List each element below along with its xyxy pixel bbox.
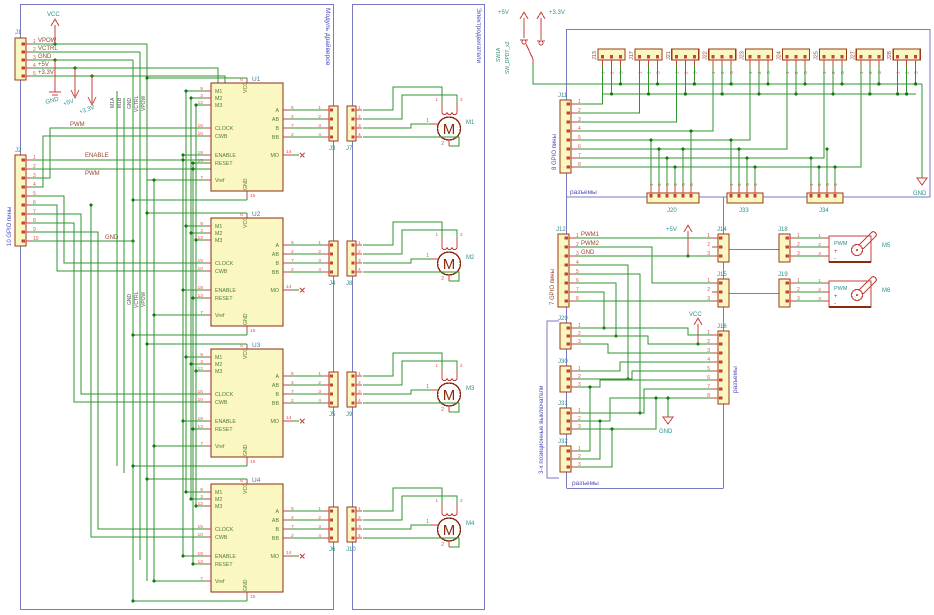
frame Модуль драйверов <box>21 5 334 610</box>
svg-text:2: 2 <box>460 498 463 503</box>
svg-text:RESET: RESET <box>215 427 233 433</box>
wire +5V J1.4 <box>32 67 75 69</box>
wire J27 pin1 <box>577 66 861 167</box>
svg-text:2: 2 <box>318 249 321 255</box>
power GND symbol (middle) <box>667 398 669 417</box>
connector J4 <box>329 241 338 276</box>
svg-text:3: 3 <box>825 183 831 186</box>
wire ENABLE stub U4 <box>183 555 205 557</box>
svg-text:2: 2 <box>757 71 763 74</box>
svg-text:A: A <box>275 374 279 380</box>
wire J9.2 to winding <box>363 361 457 385</box>
svg-text:-: - <box>834 256 836 262</box>
svg-text:CLOCK: CLOCK <box>215 392 234 398</box>
wire J31.1 to J16.7 <box>577 389 712 413</box>
svg-text:3: 3 <box>766 71 772 74</box>
wire J32.3 join <box>577 429 612 467</box>
svg-text:10: 10 <box>198 131 204 137</box>
svg-text:M1A: M1A <box>110 97 116 108</box>
svg-text:4: 4 <box>578 126 581 132</box>
svg-text:J9: J9 <box>346 412 353 418</box>
svg-text:J11: J11 <box>558 93 568 99</box>
wire J29.3 to J16.3 <box>577 344 712 353</box>
svg-text:GND: GND <box>913 191 927 197</box>
connector J12 <box>558 234 569 307</box>
svg-text:2: 2 <box>318 114 321 120</box>
svg-text:2: 2 <box>737 183 743 186</box>
svg-text:1: 1 <box>649 183 655 186</box>
frame Электродвигатели <box>353 5 485 610</box>
wire J28 pin3 to +rail <box>915 66 917 84</box>
wire RESET stub U2 <box>193 297 205 299</box>
wire VCTRL vertical bus <box>139 52 141 560</box>
svg-text:AB: AB <box>272 117 280 123</box>
wire Vref vertical bus <box>153 180 155 581</box>
svg-text:M3: M3 <box>215 369 222 375</box>
svg-text:U3: U3 <box>252 342 261 349</box>
svg-text:Vref: Vref <box>215 579 225 585</box>
power VCC symbol (middle) <box>697 324 699 344</box>
frame bottom разъемы (bottom right) <box>567 488 724 490</box>
svg-text:M2: M2 <box>215 96 222 102</box>
svg-text:M2: M2 <box>215 497 222 503</box>
svg-text:1: 1 <box>358 371 361 377</box>
wire J2.6 to row2 CWB <box>32 205 205 271</box>
wire GND J1.3 <box>32 59 133 61</box>
svg-text:VCTRL: VCTRL <box>38 46 58 52</box>
svg-text:2: 2 <box>358 249 361 255</box>
svg-text:3-х позиционные выключатели: 3-х позиционные выключатели <box>538 385 545 474</box>
svg-text:ENABLE: ENABLE <box>215 554 236 560</box>
switch SW1A <box>522 40 526 44</box>
wires bottom connector risers <box>650 140 652 188</box>
svg-text:2: 2 <box>358 515 361 521</box>
svg-text:J18: J18 <box>778 227 788 233</box>
svg-text:1: 1 <box>809 183 815 186</box>
svg-text:разъемы: разъемы <box>570 189 597 196</box>
wire J25 pin1 <box>577 66 824 158</box>
svg-text:2: 2 <box>646 71 652 74</box>
svg-text:M3: M3 <box>466 386 475 392</box>
wire row4 CWB branch <box>91 205 205 537</box>
svg-text:1: 1 <box>435 232 438 237</box>
svg-text:M1: M1 <box>215 89 222 95</box>
svg-text:1: 1 <box>859 71 865 74</box>
wire J2.10 GND <box>32 240 133 242</box>
svg-text:GND: GND <box>243 579 249 591</box>
svg-text:J31: J31 <box>558 401 568 407</box>
svg-text:SW1A: SW1A <box>496 47 502 62</box>
svg-text:J20: J20 <box>667 208 677 214</box>
servo motor M5 <box>829 236 871 262</box>
svg-text:M: M <box>443 256 456 273</box>
svg-text:Электродвигатели: Электродвигатели <box>475 8 482 64</box>
svg-text:3: 3 <box>358 389 361 395</box>
svg-text:CWB: CWB <box>215 400 228 406</box>
svg-text:2: 2 <box>441 542 444 548</box>
svg-text:J5: J5 <box>329 412 336 418</box>
connector J10 <box>347 507 356 542</box>
svg-text:U2: U2 <box>252 211 261 218</box>
wire VPOW vertical bus <box>146 44 148 581</box>
svg-text:VCC: VCC <box>689 312 702 318</box>
svg-text:4: 4 <box>358 132 361 138</box>
wire ENABLE stub U2 <box>183 289 205 291</box>
svg-text:AB: AB <box>272 252 280 258</box>
svg-text:CWB: CWB <box>215 134 228 140</box>
connector J2 <box>15 155 26 246</box>
svg-text:MO: MO <box>270 419 279 425</box>
connector J17 <box>635 49 662 60</box>
svg-text:1: 1 <box>318 240 321 246</box>
connector J32 <box>560 446 571 472</box>
wire PWM2 J12.2 to J15.1 <box>575 247 712 283</box>
svg-text:разъемы: разъемы <box>572 480 599 487</box>
svg-text:+3.3V: +3.3V <box>38 70 54 76</box>
svg-text:ENABLE: ENABLE <box>215 419 236 425</box>
svg-text:J8: J8 <box>346 281 353 287</box>
svg-text:1: 1 <box>318 105 321 111</box>
wire J12.5 riser <box>575 274 640 413</box>
connector J1 <box>15 38 26 80</box>
connector J19 <box>779 279 790 307</box>
power +3.3V symbol (switch) <box>540 18 542 40</box>
wire J24 pin2 to rail2 <box>795 66 797 94</box>
svg-text:M: M <box>443 121 456 138</box>
connector J20 <box>647 193 699 203</box>
wire J30.1 to J16.4 <box>577 362 712 371</box>
svg-text:2: 2 <box>683 71 689 74</box>
connector J18 <box>779 234 790 262</box>
power +5V symbol (switch) <box>523 18 525 38</box>
wire J22 pin3 to +rail <box>730 66 732 84</box>
svg-text:VPOW: VPOW <box>141 95 147 111</box>
svg-text:2: 2 <box>441 141 444 147</box>
svg-text:+5V: +5V <box>666 227 677 233</box>
wire J17 pin1 <box>577 66 639 113</box>
svg-text:VCC: VCC <box>243 217 249 228</box>
wire J9.3 to motor pin1 <box>363 390 431 394</box>
svg-text:3: 3 <box>877 71 883 74</box>
svg-text:2: 2 <box>460 363 463 368</box>
wire J10.4 to motor pin2 <box>363 538 459 547</box>
svg-text:15: 15 <box>250 328 256 334</box>
svg-text:U1: U1 <box>252 76 261 83</box>
svg-text:7 GPIO пины: 7 GPIO пины <box>550 269 556 305</box>
wire Vref stub U2 <box>154 314 205 316</box>
svg-text:J6: J6 <box>329 547 336 553</box>
power +5V down arrow <box>74 68 76 96</box>
svg-text:RESET: RESET <box>215 562 233 568</box>
wire J12.7 riser <box>575 292 604 328</box>
svg-text:3: 3 <box>914 71 920 74</box>
connector J34 <box>807 193 843 203</box>
svg-text:J12: J12 <box>556 227 566 233</box>
svg-text:M1: M1 <box>215 490 222 496</box>
svg-text:7: 7 <box>578 153 581 159</box>
svg-text:GND: GND <box>127 98 133 110</box>
svg-text:ENABLE: ENABLE <box>85 153 109 159</box>
svg-text:3: 3 <box>318 389 321 395</box>
svg-text:J19: J19 <box>778 272 788 278</box>
svg-text:M: M <box>443 522 456 539</box>
svg-text:ENABLE: ENABLE <box>215 288 236 294</box>
svg-text:2: 2 <box>905 71 911 74</box>
wire VPOW to U1 VCC top pin <box>147 77 247 79</box>
op-amp driver IC U2 <box>211 218 283 326</box>
wire J23 pin1 <box>577 66 750 140</box>
wire J9.4 to motor pin2 <box>363 403 459 412</box>
svg-text:AB: AB <box>272 518 280 524</box>
wire J27 pin3 to +rail <box>878 66 880 84</box>
connector J29 <box>560 323 571 349</box>
svg-text:J34: J34 <box>819 208 829 214</box>
wire J13 pin1 <box>577 66 603 104</box>
svg-text:6: 6 <box>578 144 581 150</box>
svg-text:M3: M3 <box>215 238 222 244</box>
wire RESET stub U1 <box>193 162 205 164</box>
svg-text:2: 2 <box>610 71 616 74</box>
wire J32.1 join <box>577 387 590 451</box>
svg-text:1: 1 <box>426 384 429 390</box>
svg-text:B: B <box>275 261 279 267</box>
svg-text:2: 2 <box>318 380 321 386</box>
svg-text:2: 2 <box>707 242 710 248</box>
motor M3 <box>438 383 461 406</box>
svg-text:4: 4 <box>358 267 361 273</box>
wire RESET stub U3 <box>193 428 205 430</box>
svg-text:10: 10 <box>198 532 204 538</box>
wire J30.3 to J16.6 <box>577 380 712 387</box>
svg-text:15: 15 <box>198 258 204 264</box>
wire J22 pin2 to rail2 <box>721 66 723 94</box>
svg-text:GND: GND <box>243 444 249 456</box>
wire J2.5 to row2 CLOCK <box>32 196 205 263</box>
no-connect X on MO pin U1 <box>293 154 299 156</box>
svg-text:14: 14 <box>286 284 292 290</box>
connector J22 <box>709 49 736 60</box>
wire J28 pin2 to rail2 <box>906 66 908 94</box>
wire J21 pin1 <box>577 66 676 122</box>
connector J6 <box>329 507 338 542</box>
svg-text:14: 14 <box>286 415 292 421</box>
connector J21 <box>672 49 699 60</box>
wire J8.3 to motor pin1 <box>363 259 431 263</box>
svg-text:3: 3 <box>318 258 321 264</box>
svg-text:1: 1 <box>318 506 321 512</box>
wire J2.7 to row3 CLOCK <box>32 214 205 394</box>
inductor motor winding M3 <box>441 369 443 378</box>
wire J12.8 to J15.3 <box>575 300 712 302</box>
svg-text:2: 2 <box>318 515 321 521</box>
wire U2 GND bottom pin <box>133 334 247 336</box>
svg-text:2: 2 <box>657 183 663 186</box>
svg-text:RESET: RESET <box>215 161 233 167</box>
svg-text:VCC: VCC <box>243 348 249 359</box>
svg-text:4: 4 <box>753 183 759 186</box>
svg-text:1: 1 <box>426 118 429 124</box>
svg-text:PWM: PWM <box>834 241 848 247</box>
svg-text:3: 3 <box>358 524 361 530</box>
svg-text:J10: J10 <box>346 547 356 553</box>
svg-text:1: 1 <box>358 240 361 246</box>
bus link J14-J18 <box>729 249 779 251</box>
wire J30.2 to J16.5 <box>577 371 712 379</box>
svg-text:J1: J1 <box>15 30 22 36</box>
motor M4 <box>438 518 461 541</box>
bus link J15-J19 <box>729 293 779 295</box>
svg-text:Модуль драйверов: Модуль драйверов <box>324 8 332 66</box>
wire J24 pin3 to +rail <box>804 66 806 84</box>
svg-text:A: A <box>275 243 279 249</box>
wire J27 pin2 to rail2 <box>869 66 871 94</box>
wire outputs U2 to J4 <box>289 244 323 246</box>
svg-text:Vref: Vref <box>215 444 225 450</box>
wire J2.9 to row4 CLOCK <box>32 232 205 529</box>
wire M pins feeds U1 <box>186 90 205 92</box>
svg-text:MO: MO <box>270 288 279 294</box>
connector J28 <box>893 49 920 60</box>
svg-text:J16: J16 <box>717 324 727 330</box>
svg-text:M2: M2 <box>215 362 222 368</box>
svg-text:J32: J32 <box>558 439 568 445</box>
svg-text:15: 15 <box>198 123 204 129</box>
svg-text:Vref: Vref <box>215 178 225 184</box>
wire J8.1 to winding <box>363 222 442 245</box>
inductor motor winding M2 <box>441 238 443 247</box>
svg-text:1: 1 <box>896 71 902 74</box>
svg-text:CWB: CWB <box>215 535 228 541</box>
wire VCTRL J1.2 <box>32 51 140 53</box>
wire M3 vertical <box>195 105 197 507</box>
svg-text:SW_DPDT_x2: SW_DPDT_x2 <box>505 41 511 74</box>
wire M-B vertical bus <box>123 98 125 473</box>
wire GND J12.3 to J14.3 <box>575 255 712 257</box>
svg-text:CLOCK: CLOCK <box>215 126 234 132</box>
wires J18/J19 to servo M5 <box>796 237 823 239</box>
svg-text:1: 1 <box>729 183 735 186</box>
svg-text:2: 2 <box>794 71 800 74</box>
wire J7.3 to motor pin1 <box>363 124 431 128</box>
svg-text:B: B <box>275 126 279 132</box>
wire J9.1 to winding <box>363 353 442 376</box>
connector J15 <box>718 279 729 307</box>
svg-text:+: + <box>834 249 838 255</box>
svg-text:3: 3 <box>803 71 809 74</box>
wire J7.2 to winding <box>363 95 457 119</box>
wire VPOW J1.1 <box>32 43 147 45</box>
svg-text:3: 3 <box>318 123 321 129</box>
svg-text:GND: GND <box>243 313 249 325</box>
svg-text:B: B <box>275 392 279 398</box>
svg-text:2: 2 <box>831 71 837 74</box>
wire J12.4 riser <box>575 265 628 379</box>
svg-text:3: 3 <box>358 123 361 129</box>
wire J32.2 join <box>577 421 600 459</box>
svg-text:разъемы: разъемы <box>732 366 739 393</box>
op-amp driver IC U3 <box>211 349 283 457</box>
svg-text:15: 15 <box>250 193 256 199</box>
svg-text:GND: GND <box>127 294 133 306</box>
wire VPOW to U4 VCC top pin <box>147 478 247 480</box>
svg-text:+3.3V: +3.3V <box>549 10 565 16</box>
svg-text:CLOCK: CLOCK <box>215 527 234 533</box>
wire ENABLE stub U1 <box>183 154 205 156</box>
frame edge left (right section) <box>566 197 568 488</box>
svg-text:RESET: RESET <box>215 296 233 302</box>
svg-text:Vref: Vref <box>215 313 225 319</box>
wire J10.3 to motor pin1 <box>363 525 431 529</box>
svg-text:6: 6 <box>689 183 695 186</box>
wire outputs U4 to J6 <box>289 510 323 512</box>
svg-text:2: 2 <box>358 114 361 120</box>
wire J17 pin3 to +rail <box>656 66 658 84</box>
svg-text:1: 1 <box>711 71 717 74</box>
svg-text:A: A <box>275 509 279 515</box>
svg-text:VCTRL: VCTRL <box>134 291 140 308</box>
svg-text:4: 4 <box>318 533 321 539</box>
svg-text:M2: M2 <box>215 231 222 237</box>
svg-text:CLOCK: CLOCK <box>215 261 234 267</box>
svg-text:2: 2 <box>868 71 874 74</box>
motor M2 <box>438 252 461 275</box>
wire J2.8 to row3 CWB <box>32 223 205 402</box>
svg-text:CWB: CWB <box>215 269 228 275</box>
svg-text:J30: J30 <box>558 359 568 365</box>
svg-text:J17: J17 <box>629 51 635 60</box>
svg-text:3: 3 <box>729 71 735 74</box>
svg-text:3: 3 <box>840 71 846 74</box>
wire J23 pin3 to +rail <box>767 66 769 84</box>
wire Vref stub U3 <box>154 445 205 447</box>
no-connect X on MO pin U3 <box>293 420 299 422</box>
connector J11 <box>560 100 571 173</box>
servo motor M6 <box>829 281 871 307</box>
svg-text:M: M <box>443 387 456 404</box>
svg-text:GND: GND <box>659 429 673 435</box>
svg-text:1: 1 <box>358 506 361 512</box>
svg-text:J22: J22 <box>703 51 709 60</box>
svg-text:M1B: M1B <box>117 97 123 108</box>
connector J25 <box>819 49 846 60</box>
svg-text:3: 3 <box>692 71 698 74</box>
svg-text:1: 1 <box>674 71 680 74</box>
svg-text:2: 2 <box>441 276 444 282</box>
wire M1 vertical (to M pins) <box>185 91 187 492</box>
svg-text:GND: GND <box>243 178 249 190</box>
wire outputs U3 to J5 <box>289 375 323 377</box>
wire J25 pin3 to +rail <box>841 66 843 84</box>
svg-text:VCTRL: VCTRL <box>134 95 140 112</box>
svg-text:B: B <box>275 527 279 533</box>
wire Vref stub U4 <box>154 580 205 582</box>
connector J23 <box>746 49 773 60</box>
svg-text:J14: J14 <box>717 227 727 233</box>
wire J7.4 to motor pin2 <box>363 137 459 146</box>
wire J17 pin2 to rail2 <box>647 66 649 94</box>
svg-text:10: 10 <box>198 397 204 403</box>
svg-text:14: 14 <box>286 149 292 155</box>
svg-text:VCC: VCC <box>243 483 249 494</box>
svg-text:J13: J13 <box>592 51 598 60</box>
svg-text:J23: J23 <box>740 51 746 60</box>
svg-text:J21: J21 <box>666 51 672 60</box>
svg-text:J7: J7 <box>346 146 353 152</box>
wire U3 GND bottom pin <box>133 465 247 467</box>
wire RESET net J2.2 <box>32 168 225 170</box>
svg-text:BB: BB <box>272 270 280 276</box>
svg-text:4: 4 <box>673 183 679 186</box>
